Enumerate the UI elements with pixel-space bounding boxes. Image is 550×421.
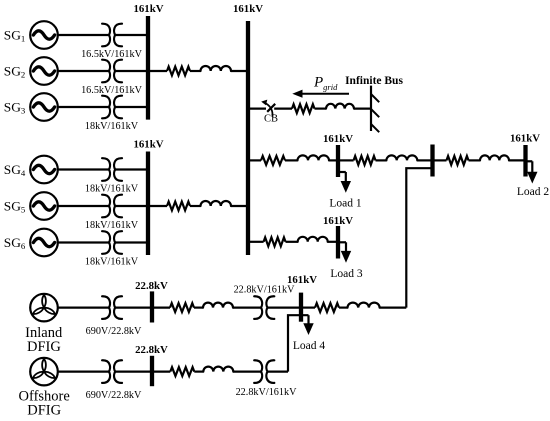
resistor line to Load1 [261,156,285,165]
svg-text:22.8kV/161kV: 22.8kV/161kV [236,387,297,398]
svg-text:Load 4: Load 4 [293,340,326,352]
svg-text:161kV: 161kV [510,133,540,145]
resistor offshore line [170,367,194,376]
load Load 2 tap arrow [526,161,538,183]
generator SG3 [30,93,58,121]
generator SG1 [30,21,58,49]
bus 161kV Load3 [336,226,340,259]
transformer T4 [102,158,122,181]
svg-text:16.5kV/161kV: 16.5kV/161kV [81,85,142,96]
arrow Pgrid (power flow) [292,90,349,98]
svg-text:Load 3: Load 3 [330,268,363,280]
wire CB to R [274,107,292,109]
bus 161kV Load2 [523,145,527,177]
wire SG1 to transformer T1 [58,34,109,36]
wire SG6 to transformer T6 [58,241,109,243]
inductor grid line [326,104,354,109]
svg-text:22.8kV/161kV: 22.8kV/161kV [234,285,295,296]
svg-text:18kV/161kV: 18kV/161kV [85,220,139,231]
inductor line to Load1 [298,155,330,160]
inductor inland 161kV line [348,303,380,308]
inductor line to Load3 [298,237,328,242]
load Load 1 tap arrow [338,172,351,193]
svg-text:16.5kV/161kV: 16.5kV/161kV [81,49,142,60]
generator SG6 [30,229,58,257]
svg-text:Infinite Bus: Infinite Bus [345,75,403,87]
wire line2 L to main bus [231,205,248,207]
wire T5 to 161kV bus [115,205,148,207]
label Inland DFIG [25,325,63,355]
resistor line to Load3 [264,237,286,246]
wire line2 bus SG4-6 to R [148,205,167,207]
svg-text:161kV: 161kV [134,3,164,15]
svg-text:18kV/161kV: 18kV/161kV [85,121,139,132]
infinite bus symbol [371,86,379,133]
wire main bus to R (line to Load1) [248,159,261,161]
wire line1 L to main bus [231,70,248,72]
wire mid bus to R (line to Load2) [433,159,447,161]
generator SG2 [30,57,58,85]
wire SG5 to transformer T5 [58,205,109,207]
svg-text:161kV: 161kV [134,139,164,151]
svg-text:161kV: 161kV [323,133,353,145]
wire line1 bus SG1-3 to R [148,70,167,72]
wire L to Load1 bus [329,159,338,161]
resistor inland 161kV line [315,303,339,312]
bus 22.8kV inland [150,291,154,322]
wire Inland DFIG to transformer T7 [58,307,109,309]
wire main bus to CB [248,107,266,109]
svg-text:CB: CB [264,114,278,125]
svg-text:18kV/161kV: 18kV/161kV [85,184,139,195]
resistor line2 [167,202,190,211]
wire R to L (line to mid bus) [376,159,387,161]
circuit breaker CB [261,100,275,117]
transformer T3 [102,96,122,119]
wire T4 to 161kV bus [115,168,148,170]
wire 22.8kV bus to R (inland line) [152,307,170,309]
wire R to L (line to Load3) [286,241,298,243]
wire T2 to 161kV bus [115,70,148,72]
inductor line2 [201,201,232,206]
wire T8 to inland 161kV bus [268,307,302,309]
wire T9 to 22.8kV bus offshore [115,371,152,373]
wire L to mid bus [417,159,432,161]
svg-text:161kV: 161kV [323,215,353,227]
wire T6 to 161kV bus [115,241,148,243]
svg-text:690V/22.8kV: 690V/22.8kV [86,326,142,337]
inductor inland line [203,303,233,308]
wire inland 161kV bus to R [301,307,315,309]
wire L to riser corner [380,307,407,309]
wire R to L (inland 161kV line) [339,307,348,309]
resistor inland line [170,303,194,312]
bus 161kV (SG1-SG3) [146,16,150,120]
wire mid bus branch to riser [406,168,432,307]
wire line1 R to L [190,70,201,72]
transformer T1 [102,24,122,47]
svg-text:DFIG: DFIG [27,403,61,417]
wire R to L (offshore line) [194,371,203,373]
wire L to Load2 bus [509,159,526,161]
svg-text:22.8kV: 22.8kV [135,280,168,292]
load Load 4 tap arrow and offshore jog [288,315,314,371]
wind generator Offshore DFIG [30,358,58,386]
resistor line to Load2 [447,156,469,165]
transformer T6 [102,231,122,254]
svg-text:161kV: 161kV [287,274,317,286]
generator SG4 [30,156,58,184]
resistor line Load1 bus to mid bus [354,156,376,165]
wire SG4 to transformer T4 [58,168,109,170]
wire T3 to 161kV bus [115,106,148,108]
wire T10 to offshore corner [268,371,289,373]
wire T1 to 161kV bus [115,34,148,36]
wind generator Inland DFIG [30,294,58,322]
wire line2 R to L [190,205,201,207]
resistor line1 [167,67,190,76]
bus 161kV main [246,21,250,255]
wire grid R to L [315,107,327,109]
bus mid 161kV [430,145,434,177]
transformer T2 [102,60,122,83]
inductor line Load1 bus to mid bus [386,155,417,160]
svg-text:22.8kV: 22.8kV [135,344,168,356]
wire R to L (line to Load2) [469,159,481,161]
wire SG2 to transformer T2 [58,70,109,72]
transformer T9 (690V/22.8kV) [102,360,122,383]
wire Load1 bus to R (line to mid bus) [338,159,354,161]
svg-text:Load 2: Load 2 [517,186,550,198]
wire L to transformer T8 [233,307,261,309]
svg-text:690V/22.8kV: 690V/22.8kV [86,390,142,401]
wire R to L (line to Load1) [285,159,298,161]
transformer T7 (690V/22.8kV) [102,296,122,319]
transformer T8 (22.8kV/161kV) [254,296,274,319]
svg-text:DFIG: DFIG [27,339,61,355]
label Offshore DFIG [19,389,70,419]
wire main bus to R (line to Load3) [248,241,264,243]
transformer T5 [102,195,122,218]
wire R to L (inland line) [194,307,203,309]
wire L to infinite bus [354,107,371,109]
bus 161kV (SG4-SG6) [146,152,150,256]
wire L to transformer T10 [233,371,261,373]
wire T7 to 22.8kV bus [115,307,152,309]
generator SG5 [30,192,58,220]
bus 161kV Load1 [336,145,340,177]
inductor offshore line [203,367,233,372]
wire L to Load3 bus [328,241,338,243]
load Load 3 tap arrow [338,242,351,262]
bus 22.8kV offshore [150,356,154,386]
svg-text:Load 1: Load 1 [329,198,362,210]
wire Offshore DFIG to transformer T9 [58,371,109,373]
resistor grid line [292,104,314,113]
wire SG3 to transformer T3 [58,106,109,108]
wire 22.8kV offshore bus to R [152,371,170,373]
svg-text:18kV/161kV: 18kV/161kV [85,257,139,268]
inductor line to Load2 [480,155,509,160]
svg-text:161kV: 161kV [233,3,263,15]
bus 161kV inland [299,293,303,322]
transformer T10 (22.8kV/161kV) [254,360,274,383]
inductor line1 [201,66,232,71]
